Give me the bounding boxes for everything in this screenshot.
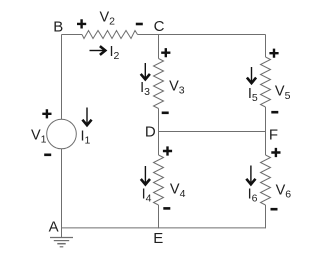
current arrow I6 [246,166,255,185]
wire: top segment node B to resistor V2 [62,34,83,36]
current arrow I2 [90,46,106,55]
wire: resistor V2 to node C and on to top-right corner [138,34,266,36]
svg-text:C: C [154,18,165,35]
node label E [153,230,163,247]
plus sign of V6 [271,148,280,157]
plus sign of V2 [77,19,86,28]
node label B [53,19,63,36]
minus sign of V5 [271,111,278,114]
wire: bottom segment A to E to bottom-right corner [62,227,266,229]
minus sign of V6 [271,208,278,211]
resistor V6 [261,155,271,205]
wire: V1 source bottom to node A [61,149,63,229]
resistor V2 [82,31,138,39]
current label I3 [140,80,150,98]
current arrow I4 [141,166,150,185]
wire: resistor V4 to node E [158,205,160,228]
value label V2 [100,10,116,28]
value label V1 [31,127,47,145]
resistor V5 [261,57,271,107]
current label I6 [248,186,258,204]
node label F [269,127,278,144]
node label A [49,219,59,236]
plus sign of V4 [163,146,172,155]
svg-text:A: A [49,219,59,236]
plus sign of V1 [42,109,51,118]
wire: node D to node F [159,131,266,133]
svg-text:D: D [145,124,156,141]
minus sign of V3 [162,112,169,115]
current arrow I5 [247,67,256,83]
current label I2 [110,44,120,62]
svg-text:B: B [53,19,63,36]
node label D [145,124,156,141]
plus sign of V3 [161,48,170,57]
minus sign of V4 [163,207,170,210]
value label V5 [275,84,291,102]
current label I4 [142,187,152,205]
minus sign of V1 [44,154,51,157]
resistor V4 [154,155,164,205]
current arrow I1 [82,108,91,126]
resistor V3 [154,59,164,109]
wire: resistor V5 to node F and on to resistor V6 [265,107,267,155]
wire: node B down to V1 source top [61,35,63,120]
ground [50,228,73,247]
svg-text:F: F [269,127,278,144]
current arrow I3 [141,63,150,79]
svg-text:E: E [153,230,163,247]
wire: node C down to resistor V3 [158,35,160,59]
current label I1 [81,128,91,146]
node label C [154,18,165,35]
value label V4 [170,182,186,200]
wire: resistor V6 to bottom-right corner [265,205,267,228]
value label V6 [276,182,292,200]
wire: resistor V3 to node D and on to resistor V4 [158,109,160,156]
voltage source V1 [47,119,77,149]
wire: top-right corner down to resistor V5 [265,35,267,58]
plus sign of V5 [269,49,278,58]
minus sign of V2 [136,23,143,26]
value label V3 [169,78,185,96]
current label I5 [248,86,258,104]
